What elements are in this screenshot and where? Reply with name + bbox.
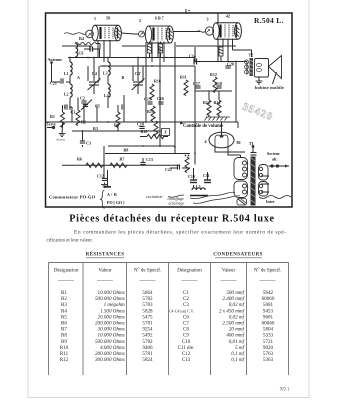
svg-text:N° de Spécif.: N° de Spécif.	[254, 267, 281, 274]
resistor R13	[207, 100, 211, 116]
svg-text:3: 3	[207, 17, 209, 22]
secondary stubs	[261, 176, 268, 192]
secteur plug wires	[269, 165, 290, 167]
svg-text:C9: C9	[183, 333, 189, 339]
svg-text:alt.: alt.	[272, 157, 277, 162]
ground hatch	[205, 117, 231, 121]
wire y91	[195, 90, 232, 92]
svg-text:0,01 mf: 0,01 mf	[229, 338, 245, 345]
svg-text:C14: C14	[189, 54, 196, 59]
svg-text:C7: C7	[183, 321, 189, 327]
svg-text:5781: 5781	[142, 351, 153, 357]
rectifier tube V4 (80)	[209, 132, 234, 148]
ground	[101, 185, 108, 188]
svg-text:5721: 5721	[263, 339, 274, 345]
wire speaker feed	[233, 50, 252, 57]
wire x160 between buses	[159, 131, 161, 147]
T1 core	[251, 152, 256, 206]
svg-text:58: 58	[106, 16, 110, 21]
coil L3	[108, 62, 110, 75]
svg-text:C11 éle.: C11 éle.	[178, 345, 195, 351]
capacitor C6	[90, 47, 93, 52]
svg-text:C12: C12	[97, 174, 104, 179]
capacitor C7	[122, 104, 124, 109]
IF winding blob b	[159, 44, 163, 53]
commutateur terminal	[107, 170, 109, 186]
capacitor C18	[216, 86, 221, 88]
grid arrow tube2	[140, 33, 143, 36]
tube V1 grid cap circle	[86, 30, 94, 38]
wire tube1 to tube2 grid	[121, 33, 134, 34]
excitation wavy wire	[168, 195, 184, 197]
wire tube3 top stub	[217, 14, 219, 24]
svg-text:R12: R12	[60, 357, 69, 363]
svg-text:bobine mobile: bobine mobile	[255, 85, 284, 90]
resistor (mid)	[154, 121, 158, 137]
coil L4	[108, 84, 110, 97]
svg-text:5782: 5782	[142, 296, 153, 302]
grid arrow tube3	[207, 30, 210, 33]
svg-text:2 x 450 mmf: 2 x 450 mmf	[219, 307, 245, 314]
svg-text:R11: R11	[180, 75, 187, 80]
svg-text:30.000 Ohms: 30.000 Ohms	[98, 327, 125, 333]
svg-text:R15: R15	[147, 109, 154, 114]
T1 secondary winding upper	[259, 165, 269, 181]
svg-text:R10: R10	[60, 345, 69, 351]
svg-text:C16: C16	[157, 96, 164, 101]
wire verticals left column	[64, 106, 65, 108]
svg-text:R7: R7	[120, 157, 125, 162]
svg-text:400 mmf: 400 mmf	[226, 332, 244, 339]
svg-text:500.000 Ohms: 500.000 Ohms	[95, 339, 125, 345]
wire terre	[46, 121, 63, 123]
long vertical x175	[174, 42, 176, 154]
capacitor C2	[81, 101, 86, 103]
capacitor C17	[195, 86, 200, 88]
svg-text:Secteur: Secteur	[267, 151, 280, 156]
long vertical x146	[145, 42, 147, 122]
svg-text:9406: 9406	[142, 345, 153, 351]
bobine pointer	[273, 72, 277, 84]
svg-text:9681: 9681	[263, 314, 274, 320]
table headers	[54, 267, 281, 274]
svg-text:R4: R4	[79, 36, 84, 41]
svg-text:R3: R3	[93, 126, 98, 131]
svg-text:R1: R1	[50, 114, 55, 119]
svg-text:Antenne: Antenne	[48, 57, 63, 62]
long vertical x236	[235, 62, 237, 123]
tube V3 pin wires	[217, 39, 219, 62]
svg-text:5782: 5782	[142, 339, 153, 345]
svg-text:60060: 60060	[262, 296, 275, 302]
svg-text:cification et leur valeur.: cification et leur valeur.	[47, 238, 93, 243]
svg-text:9453: 9453	[263, 308, 274, 314]
junction dots	[69, 57, 237, 167]
svg-text:2.400 mmf: 2.400 mmf	[222, 295, 244, 302]
svg-text:4: 4	[205, 139, 207, 144]
svg-text:C2: C2	[80, 96, 85, 101]
svg-text:Valeur: Valeur	[222, 268, 236, 274]
svg-text:C13: C13	[182, 357, 191, 363]
capacitor C1	[65, 104, 67, 109]
speaker cone	[269, 56, 282, 79]
table grid	[49, 263, 289, 376]
svg-text:R4: R4	[61, 308, 67, 314]
B+ vertical to choke	[246, 62, 248, 75]
svg-text:10.000 Ohms: 10.000 Ohms	[98, 290, 125, 296]
svg-text:5475: 5475	[142, 314, 153, 320]
svg-text:R11: R11	[60, 351, 69, 357]
svg-text:R16: R16	[154, 79, 161, 84]
capacitor C16	[158, 102, 163, 104]
svg-text:éclairage: éclairage	[169, 200, 185, 205]
wire bus y147	[108, 145, 175, 147]
svg-text:60040: 60040	[262, 321, 275, 327]
svg-text:L4: L4	[104, 93, 109, 98]
volume control bus	[46, 121, 238, 123]
capacitor C13	[140, 163, 145, 165]
L5 core bar	[190, 195, 208, 197]
svg-text:5333: 5333	[263, 333, 274, 339]
tube V1 (58) envelope	[92, 25, 122, 41]
resistor R15	[151, 106, 155, 122]
svg-text:Désignation: Désignation	[177, 268, 202, 274]
trimmer C5	[81, 100, 92, 111]
svg-text:L5: L5	[196, 184, 201, 189]
svg-text:C20: C20	[227, 62, 234, 67]
svg-text:Pièces détachées du récepteur: Pièces détachées du récepteur R.504 luxe	[69, 214, 275, 225]
svg-text:20 mmf: 20 mmf	[229, 326, 245, 333]
svg-text:L3: L3	[103, 71, 108, 76]
svg-text:80: 80	[237, 140, 241, 145]
svg-text:C21: C21	[50, 81, 57, 86]
svg-text:C4': C4'	[135, 71, 141, 76]
wire bus y66	[100, 65, 195, 67]
resistor R9	[116, 112, 120, 128]
tube V1 pin wires	[97, 40, 99, 58]
svg-text:C22: C22	[165, 167, 172, 172]
capacitor C3	[80, 141, 85, 143]
svg-text:10.000 Ohms: 10.000 Ohms	[98, 333, 125, 339]
capacitor C14	[225, 66, 230, 68]
rectifier connections	[221, 122, 223, 128]
svg-text:R1: R1	[61, 290, 67, 296]
resistor with dots (bias)	[185, 157, 189, 173]
svg-text:R14: R14	[214, 100, 221, 105]
variable capacitor C4p	[132, 79, 145, 91]
IF winding blob a	[148, 44, 152, 53]
svg-text:35420: 35420	[241, 102, 275, 124]
svg-text:R6: R6	[77, 157, 82, 162]
svg-text:R8: R8	[61, 333, 67, 339]
T1 top cap marks	[251, 153, 257, 156]
svg-text:9254: 9254	[142, 327, 153, 333]
svg-text:2.500 mmf: 2.500 mmf	[222, 320, 244, 327]
svg-text:R3: R3	[61, 302, 67, 308]
svg-text:C17: C17	[193, 81, 200, 86]
svg-text:C12: C12	[182, 351, 191, 357]
svg-text:0,02 mf: 0,02 mf	[229, 301, 245, 308]
resistor R7	[110, 163, 127, 167]
svg-text:C1: C1	[183, 290, 189, 296]
svg-text:Inter: Inter	[266, 199, 275, 204]
svg-text:C6: C6	[183, 314, 189, 320]
capacitor C22	[178, 164, 180, 169]
T1 primary winding lower	[234, 181, 248, 198]
svg-text:5828: 5828	[142, 308, 153, 314]
svg-text:A: A	[77, 75, 80, 80]
svg-text:200.000 Ohms: 200.000 Ohms	[95, 321, 125, 327]
capacitor C21	[61, 78, 63, 83]
coil L1	[70, 62, 72, 75]
T2 core	[250, 58, 254, 76]
svg-text:500.000 Ohms: 500.000 Ohms	[95, 296, 125, 302]
svg-text:500 mmf: 500 mmf	[226, 289, 244, 296]
svg-text:chassis: chassis	[56, 138, 66, 142]
svg-text:5864: 5864	[142, 290, 153, 296]
svg-text:C19: C19	[188, 174, 195, 179]
coil L2	[70, 84, 72, 97]
svg-text:R8: R8	[124, 148, 129, 153]
svg-text:PO [ GO ]: PO [ GO ]	[107, 200, 125, 205]
svg-text:2: 2	[139, 18, 141, 23]
wire verticals C4 area	[93, 58, 95, 82]
wire tube2 to tube3 grid	[173, 31, 200, 33]
wire bus y61.5	[195, 61, 247, 63]
svg-text:0,1 mf: 0,1 mf	[231, 350, 244, 357]
T1 secondary winding lower	[259, 182, 269, 197]
svg-text:C6: C6	[79, 51, 84, 56]
inter wire	[259, 196, 291, 199]
svg-text:Commutateur PO-GO: Commutateur PO-GO	[49, 195, 96, 200]
svg-text:0,02 mf: 0,02 mf	[229, 313, 245, 320]
svg-text:5681: 5681	[263, 302, 274, 308]
wire verticals C4p area	[137, 58, 139, 82]
IF winding blob c	[219, 47, 223, 56]
table data left (resistances)	[60, 290, 153, 363]
svg-text:4.000 Ohms: 4.000 Ohms	[100, 345, 125, 351]
capacitor C11	[204, 180, 211, 183]
tube V1 end hatch	[116, 28, 121, 39]
winding block bottom hatched	[237, 199, 247, 206]
resistor R14	[217, 100, 221, 116]
svg-text:300.000 Ohms: 300.000 Ohms	[95, 357, 125, 363]
schematic labels	[47, 14, 285, 206]
resistor R11	[184, 80, 188, 96]
grid arrow tube1	[88, 34, 91, 37]
svg-text:R2: R2	[61, 296, 67, 302]
svg-text:1: 1	[94, 16, 96, 21]
svg-text:R10: R10	[141, 129, 148, 134]
tube V2 (6B7) envelope	[145, 26, 173, 43]
capacitor C19	[190, 180, 197, 183]
svg-text:42: 42	[226, 14, 230, 19]
wire bus y153	[105, 153, 190, 155]
capacitor C14 series in bus	[194, 59, 197, 65]
coil L5	[192, 188, 205, 190]
svg-text:Contrôle de volume: Contrôle de volume	[183, 124, 223, 129]
svg-text:C15: C15	[144, 97, 151, 102]
svg-text:C1: C1	[71, 110, 76, 115]
tube V3 (42) envelope	[213, 23, 242, 40]
wire top bus	[68, 57, 195, 59]
svg-text:C3: C3	[183, 302, 189, 308]
svg-text:C2: C2	[183, 296, 189, 302]
T1 primary winding upper	[234, 158, 248, 180]
svg-text:5763: 5763	[263, 351, 274, 357]
svg-text:200.000 Ohms: 200.000 Ohms	[95, 351, 125, 357]
svg-text:Désignation: Désignation	[54, 268, 79, 274]
svg-text:X9 1: X9 1	[280, 388, 290, 393]
capacitor C10	[139, 127, 144, 129]
wire stubs tube2 area	[149, 53, 151, 58]
resistor R12	[213, 77, 217, 93]
svg-text:20.000 Ohms: 20.000 Ohms	[98, 314, 125, 320]
svg-text:T2: T2	[249, 53, 254, 58]
svg-text:5781: 5781	[142, 321, 153, 327]
svg-text:5642: 5642	[263, 290, 274, 296]
svg-text:R2: R2	[81, 120, 86, 125]
svg-text:R13: R13	[203, 100, 210, 105]
svg-text:CONDENSATEURS: CONDENSATEURS	[213, 253, 263, 258]
svg-text:1.500 Ohms: 1.500 Ohms	[100, 308, 125, 314]
frame top terminal marks	[185, 9, 187, 14]
svg-text:Valeur: Valeur	[98, 268, 112, 274]
svg-text:R.504 L.: R.504 L.	[254, 16, 284, 25]
svg-text:B: B	[122, 75, 125, 80]
svg-text:5804: 5804	[263, 327, 274, 333]
svg-text:1 mégohm: 1 mégohm	[104, 302, 125, 308]
svg-text:R9: R9	[114, 123, 119, 128]
long vertical x195	[194, 47, 196, 62]
wire bus y164	[62, 164, 180, 166]
svg-text:0,1 mf: 0,1 mf	[231, 356, 244, 363]
resistor R1	[61, 112, 65, 128]
svg-text:C5: C5	[95, 104, 100, 109]
svg-text:R12: R12	[210, 72, 217, 77]
wire bus y131	[72, 130, 160, 132]
wire upper bus y46	[62, 45, 92, 47]
svg-text:C3: C3	[86, 141, 91, 146]
svg-text:C10: C10	[182, 339, 191, 345]
svg-text:C10: C10	[137, 122, 144, 127]
svg-text:F: F	[165, 130, 168, 135]
svg-text:A + B: A + B	[107, 192, 117, 197]
svg-text:5824: 5824	[142, 357, 153, 363]
tube V3 grid cap circle	[205, 27, 213, 35]
coil under V1	[76, 44, 78, 57]
resistor R4 (horizontal squiggle)	[75, 42, 96, 45]
tube V2 end hatch	[168, 29, 173, 40]
svg-text:En commandant les pièces détac: En commandant les pièces détachées, spéc…	[74, 229, 287, 236]
tube V3 internal grid	[219, 25, 221, 38]
svg-text:L2: L2	[64, 92, 69, 97]
svg-text:5 mf: 5 mf	[235, 344, 244, 351]
tube V1 internal grid	[99, 27, 101, 39]
svg-text:excitation: excitation	[146, 194, 163, 199]
schematic frame	[46, 13, 293, 207]
svg-text:C11: C11	[203, 173, 210, 178]
svg-text:RÉSISTANCES: RÉSISTANCES	[86, 252, 125, 258]
tube V2 grid cap circle	[139, 31, 145, 37]
resistor R2	[76, 110, 80, 126]
svg-text:R9: R9	[61, 339, 67, 345]
svg-text:R6: R6	[61, 321, 67, 327]
svg-text:C13: C13	[146, 157, 153, 162]
svg-text:5363: 5363	[263, 357, 274, 363]
svg-text:5492: 5492	[142, 333, 153, 339]
svg-text:6 B 7: 6 B 7	[155, 16, 164, 21]
wire y136 with resistor R10	[140, 136, 147, 138]
capacitor C15	[147, 102, 152, 104]
commutateur brace	[101, 190, 105, 208]
T2 primary coil	[245, 60, 249, 74]
svg-text:5783: 5783	[142, 302, 153, 308]
ground chassis	[59, 134, 66, 137]
svg-text:L1: L1	[64, 71, 69, 76]
ground under T2	[256, 81, 263, 84]
svg-text:N° de Spécif.: N° de Spécif.	[134, 267, 161, 274]
long vertical x160	[159, 47, 161, 131]
svg-text:C8: C8	[183, 327, 189, 333]
svg-text:C4-C4'conj C.V.: C4-C4'conj C.V.	[169, 309, 194, 313]
svg-text:C18: C18	[215, 81, 222, 86]
chauffage wavy wires	[190, 192, 235, 198]
wire	[69, 58, 71, 63]
resistor R6	[86, 163, 103, 167]
variable capacitor C4	[88, 79, 101, 91]
svg-text:R7: R7	[61, 327, 67, 333]
resistor R16	[150, 84, 154, 100]
svg-text:C4: C4	[92, 71, 97, 76]
grid lead wavy to tube1	[64, 33, 86, 35]
table data right (condensateurs)	[169, 289, 275, 363]
antenna lead	[51, 63, 53, 81]
svg-text:9020: 9020	[263, 345, 274, 351]
tube V3 end hatch	[235, 26, 240, 37]
speaker field box	[255, 59, 269, 78]
tube V2 internal grid	[152, 28, 154, 41]
capacitor C12	[102, 179, 107, 181]
svg-text:T1: T1	[249, 141, 254, 146]
svg-text:R5: R5	[61, 314, 67, 320]
tube V2 pin wires	[151, 42, 153, 63]
fuse F1 box	[162, 129, 170, 136]
svg-text:Terre: Terre	[47, 122, 57, 127]
